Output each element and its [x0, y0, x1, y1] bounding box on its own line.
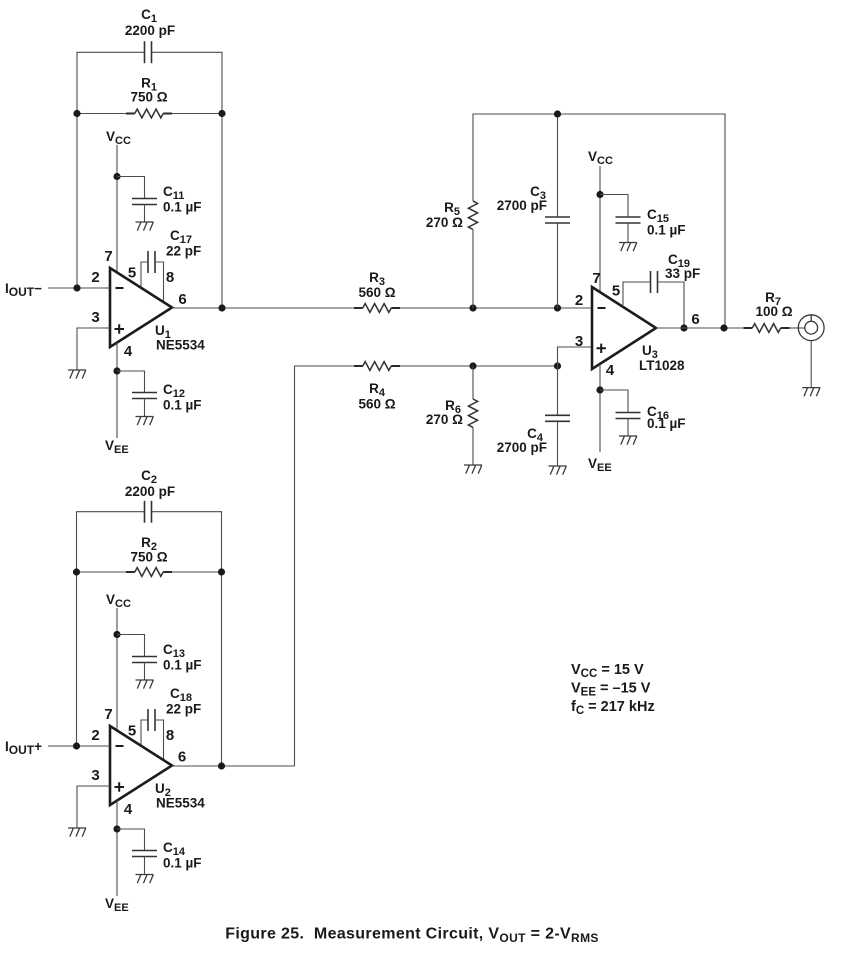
svg-text:560 Ω: 560 Ω	[358, 397, 395, 412]
svg-text:7: 7	[592, 270, 600, 287]
capacitor C14	[132, 840, 202, 871]
wire	[117, 177, 145, 199]
svg-text:8: 8	[166, 269, 174, 286]
svg-text:2200 pF: 2200 pF	[125, 23, 175, 38]
wire	[172, 765, 295, 767]
svg-text:0.1 µF: 0.1 µF	[647, 223, 686, 238]
svg-text:4: 4	[606, 362, 615, 379]
wire	[557, 114, 559, 217]
svg-text:3: 3	[575, 333, 583, 350]
junction R1 right	[218, 110, 225, 117]
svg-text:22 pF: 22 pF	[166, 244, 201, 259]
svg-text:5: 5	[128, 265, 136, 282]
ground (C16)	[619, 436, 637, 445]
svg-text:VEE: VEE	[105, 896, 129, 914]
ground (output jack)	[802, 388, 820, 397]
wire	[557, 223, 559, 308]
svg-text:6: 6	[178, 749, 186, 766]
junction VCC/C15	[596, 191, 603, 198]
wire	[144, 205, 146, 223]
capacitor C19	[651, 252, 701, 293]
wire	[400, 307, 592, 309]
svg-text:22 pF: 22 pF	[166, 702, 201, 717]
svg-text:fC = 217 kHz: fC = 217 kHz	[571, 699, 655, 717]
wire	[155, 720, 164, 760]
wire	[627, 223, 629, 243]
svg-text:VCC: VCC	[106, 592, 131, 610]
svg-text:270 Ω: 270 Ω	[426, 215, 463, 230]
svg-text:0.1 µF: 0.1 µF	[163, 856, 202, 871]
wire	[600, 195, 628, 218]
wire	[116, 608, 118, 731]
wire	[400, 365, 558, 367]
wire	[116, 145, 118, 273]
junction VEE/C16	[596, 386, 603, 393]
junction U1 output	[218, 304, 225, 311]
wire	[48, 287, 110, 289]
caption	[225, 926, 599, 946]
svg-text:2700 pF: 2700 pF	[497, 440, 547, 455]
wire	[172, 113, 222, 115]
wire	[117, 371, 145, 393]
capacitor C15	[616, 207, 686, 238]
input IOUT-	[5, 281, 42, 299]
svg-text:2: 2	[575, 292, 583, 309]
ground (C13)	[136, 680, 154, 689]
wire	[77, 512, 145, 746]
svg-text:VEE: VEE	[588, 456, 612, 474]
wire	[152, 52, 223, 308]
svg-text:270 Ω: 270 Ω	[426, 412, 463, 427]
wire	[77, 52, 145, 288]
svg-text:VCC = 15 V: VCC = 15 V	[571, 662, 644, 680]
junction C3 top	[554, 110, 561, 117]
wire	[144, 399, 146, 417]
wire	[116, 801, 118, 897]
wire	[558, 347, 593, 366]
wire	[599, 166, 601, 292]
wire	[144, 857, 146, 875]
ground (U1 +input)	[68, 370, 86, 379]
svg-text:2: 2	[91, 269, 99, 286]
capacitor C16	[616, 404, 686, 431]
svg-text:Figure 25. Measurement Circui: Figure 25. Measurement Circuit, VOUT = 2…	[225, 926, 599, 946]
svg-text:6: 6	[178, 291, 186, 308]
resistor R6	[426, 398, 478, 427]
svg-text:750 Ω: 750 Ω	[130, 90, 167, 105]
junction VEE/C14	[113, 825, 120, 832]
wire	[623, 282, 651, 305]
svg-text:4: 4	[124, 801, 133, 818]
junction C19/output	[680, 324, 687, 331]
capacitor C17	[148, 228, 201, 273]
resistor R5	[426, 200, 478, 230]
resistor R3	[354, 270, 400, 312]
svg-text:33 pF: 33 pF	[665, 266, 700, 281]
junction R2 right	[218, 568, 225, 575]
wire	[48, 745, 110, 747]
svg-text:IOUT+: IOUT+	[5, 739, 42, 757]
resistor R1	[126, 76, 172, 118]
capacitor C13	[132, 642, 202, 673]
ground (C12)	[136, 417, 154, 426]
svg-text:0.1 µF: 0.1 µF	[163, 658, 202, 673]
junction inverting input U1	[73, 284, 80, 291]
wire	[295, 366, 355, 766]
junction feedback/output	[720, 324, 727, 331]
power VCC (U1)	[106, 129, 131, 147]
svg-text:6: 6	[691, 311, 699, 328]
junction C4 top	[554, 362, 561, 369]
wire	[472, 230, 474, 309]
wire	[77, 113, 126, 115]
svg-text:NE5534: NE5534	[156, 338, 205, 353]
op-amp U2	[110, 726, 205, 811]
wire	[658, 282, 685, 328]
wire	[472, 428, 474, 466]
wire	[77, 328, 110, 370]
connector output jack	[798, 315, 824, 341]
junction inverting input U2	[73, 742, 80, 749]
svg-text:VEE = –15 V: VEE = –15 V	[571, 681, 651, 699]
junction U2 output	[218, 762, 225, 769]
svg-text:3: 3	[91, 767, 99, 784]
junction VEE/C12	[113, 367, 120, 374]
wire	[656, 327, 744, 329]
input IOUT+	[5, 739, 42, 757]
power VEE (U1)	[105, 438, 129, 456]
junction VCC/C13	[113, 631, 120, 638]
wire	[116, 343, 118, 439]
svg-text:2200 pF: 2200 pF	[125, 484, 175, 499]
svg-text:4: 4	[124, 343, 133, 360]
wire	[557, 421, 559, 466]
svg-text:VCC: VCC	[588, 149, 613, 167]
svg-text:LT1028: LT1028	[639, 358, 685, 373]
svg-text:5: 5	[612, 283, 620, 300]
wire	[627, 419, 629, 437]
ground (U2 +input)	[68, 828, 86, 837]
resistor R2	[126, 535, 172, 576]
wire	[77, 571, 127, 573]
wire	[144, 663, 146, 681]
power VCC (U3)	[588, 149, 613, 167]
svg-text:750 Ω: 750 Ω	[130, 550, 167, 565]
wire	[77, 786, 110, 828]
junction R2 left	[73, 568, 80, 575]
wire	[600, 390, 628, 413]
capacitor C11	[132, 184, 202, 215]
resistor R7	[744, 290, 793, 332]
svg-text:100 Ω: 100 Ω	[755, 304, 792, 319]
svg-text:7: 7	[104, 248, 112, 265]
svg-text:2: 2	[91, 727, 99, 744]
capacitor C3	[497, 184, 570, 223]
svg-text:VCC: VCC	[106, 129, 131, 147]
svg-text:560 Ω: 560 Ω	[358, 285, 395, 300]
svg-text:0.1 µF: 0.1 µF	[163, 200, 202, 215]
power VEE (U3)	[588, 456, 612, 474]
op-amp U1	[110, 268, 205, 353]
wire	[172, 571, 222, 573]
ground (C15)	[619, 243, 637, 252]
wire	[117, 635, 145, 657]
power VCC (U2)	[106, 592, 131, 610]
wire	[557, 366, 559, 415]
wire	[152, 512, 222, 766]
power VEE (U2)	[105, 896, 129, 914]
capacitor C12	[132, 382, 202, 413]
capacitor C1	[125, 7, 175, 63]
resistor R4	[354, 362, 400, 412]
op-amp U3	[592, 287, 685, 373]
svg-text:3: 3	[91, 309, 99, 326]
wire	[599, 364, 601, 452]
junction C3 bottom	[554, 304, 561, 311]
junction R6 top	[469, 362, 476, 369]
svg-text:NE5534: NE5534	[156, 796, 205, 811]
junction R1 left	[73, 110, 80, 117]
wire	[810, 341, 812, 388]
wire	[141, 720, 148, 746]
ground (C14)	[136, 875, 154, 884]
wire	[172, 307, 354, 309]
svg-text:8: 8	[166, 727, 174, 744]
svg-text:7: 7	[104, 706, 112, 723]
ground (R6)	[464, 465, 482, 474]
junction R5 bottom	[469, 304, 476, 311]
svg-text:0.1 µF: 0.1 µF	[647, 416, 686, 431]
svg-text:VEE: VEE	[105, 438, 129, 456]
note supply values	[571, 662, 655, 717]
capacitor C18	[148, 686, 201, 731]
wire	[155, 262, 164, 302]
wire	[141, 262, 148, 288]
wire	[473, 114, 725, 328]
svg-text:2700 pF: 2700 pF	[497, 198, 547, 213]
svg-text:IOUT−: IOUT−	[5, 281, 42, 299]
wire	[472, 366, 474, 399]
svg-text:5: 5	[128, 723, 136, 740]
junction VCC/C11	[113, 173, 120, 180]
capacitor C2	[125, 468, 175, 523]
svg-text:0.1 µF: 0.1 µF	[163, 398, 202, 413]
ground (C4)	[549, 466, 567, 475]
wire	[117, 829, 145, 851]
capacitor C4	[497, 415, 570, 455]
wire	[790, 327, 806, 329]
ground (C11)	[136, 222, 154, 231]
